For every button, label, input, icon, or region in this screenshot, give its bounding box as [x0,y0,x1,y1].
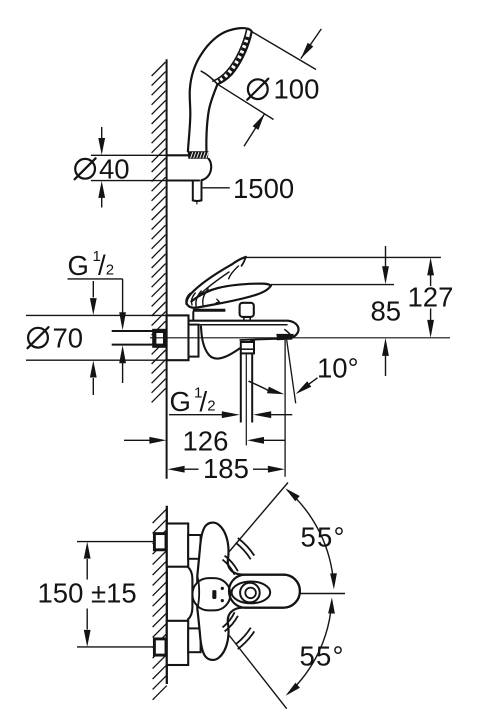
dim G1/2 bottom arrows [169,414,222,416]
dim 185 [168,466,185,473]
swing diagonal lower [229,636,286,709]
dim Ø100 arrow lower [244,114,265,147]
dim 126 [124,439,150,441]
extension line 126 [245,354,247,445]
swing ghost arcs upper [223,560,235,575]
dim Ø40 extension lines [91,154,167,156]
mounting block bottom [167,621,188,665]
head/handle joint line [201,71,217,84]
dim Ø70 arrows [92,281,94,298]
lever accents [229,266,239,279]
spray face outer edge [218,32,252,85]
dim 127 [427,257,434,275]
dim line A (127 top ref) [246,256,441,258]
swing ghost arcs lower [223,612,235,627]
svg-text:185: 185 [203,453,249,484]
connector bottom (plan) [188,628,200,652]
10 deg leader arrows [249,381,269,390]
dim Ø100 arrow upper [301,29,322,59]
dim 55° upper arc [287,490,333,585]
spout nose inner curve [285,330,292,338]
diverter knob [240,303,254,317]
svg-text:85: 85 [371,296,402,327]
svg-text:G: G [68,250,89,281]
wall union nut (side view) [154,331,165,346]
hand shower handle/head outline [188,28,252,151]
swing centerline right [300,593,345,595]
svg-text:2: 2 [106,261,114,278]
outlet pipe nut [241,342,254,353]
svg-text:40: 40 [99,153,130,184]
spout top [190,321,299,339]
handle end outer ring [229,575,300,608]
dim Ø70 extension lines [26,314,167,316]
svg-text:55°: 55° [301,522,346,553]
handle end ring circle [240,583,260,603]
faucet body belly [201,327,254,359]
shower hose [192,181,194,201]
wall hatching (upper) [152,62,166,402]
pad inner contour [198,577,200,608]
label Ø 70 [28,328,48,348]
dim Ø100 extension line lower [218,84,274,119]
shower handle nut (hatched) [188,151,209,159]
spray nozzles [219,37,248,82]
dim line B (85 top ref) [271,284,394,286]
svg-text:70: 70 [53,323,84,354]
svg-text:100: 100 [274,73,320,104]
dim 55° lower arc [288,602,332,694]
supply pipe behind wall [112,330,154,332]
wall hatching (bottom) [153,509,167,700]
outlet pipe [240,353,242,422]
wall face line (bottom view) [166,506,168,684]
swing diagonal upper [229,483,288,552]
svg-text:55°: 55° [300,641,345,672]
faucet body (front/plan view) [197,523,300,660]
lever upper sweep [186,265,231,304]
svg-text:1500: 1500 [233,173,294,204]
pad markers [212,590,216,599]
handle end mid ring [232,582,271,604]
dim G1/2 top leader+arrows [68,278,123,280]
cartridge ring [193,309,226,312]
escutcheon (side view) [167,315,189,360]
spout second line [197,324,288,326]
connector top (plan) [188,535,200,559]
dim 150 ±15 extension lines [77,541,153,543]
union nut bottom (plan) [154,639,166,655]
union nut top (plan) [154,534,166,550]
10 deg slanted line [287,340,296,403]
handle end inner circle [245,588,256,599]
10 deg vertical reference [284,340,286,477]
label 1500 leader [203,187,230,189]
label Ø 40 [75,159,95,179]
svg-text:G: G [170,386,191,417]
spray face inner edge [213,29,247,81]
dim Ø40 arrows [101,127,103,139]
spout underside [240,339,276,340]
body front pad [192,578,230,610]
svg-text:150 ±15: 150 ±15 [38,578,137,609]
hand shower neck right edge [206,84,217,151]
svg-text:/: / [98,250,106,281]
svg-text:10°: 10° [317,353,359,384]
dim 150 ±15 arrows [84,542,91,559]
dim Ø100 extension line upper [252,32,316,70]
dim 85 [385,246,387,267]
wall face line (upper) [166,59,168,479]
body waist edge [188,567,193,619]
mounting block top [167,524,188,567]
aerator (hatched) [276,334,294,340]
centerline [150,337,450,339]
body connector [189,325,199,357]
svg-text:/: / [200,386,208,417]
svg-text:127: 127 [408,282,454,313]
wall bracket [167,154,189,156]
lever handle (side view) [186,284,271,308]
label Ø 100 [248,79,268,99]
svg-text:2: 2 [207,398,215,415]
lever beak [232,257,246,265]
